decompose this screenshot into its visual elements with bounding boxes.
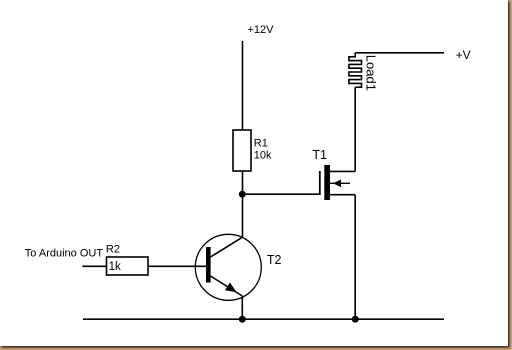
transistor T2 base bar xyxy=(206,247,211,283)
svg-text:T1: T1 xyxy=(312,148,327,162)
transistor T2 emitter line xyxy=(211,276,243,296)
mosfet T1 gate line xyxy=(319,171,321,195)
resistor R2 body xyxy=(107,257,149,275)
mosfet T1 body arrow head xyxy=(333,180,341,188)
wire gate horizontal xyxy=(242,193,320,195)
wire +12V supply vertical xyxy=(242,41,244,130)
svg-text:+12V: +12V xyxy=(248,24,275,36)
wire base left segment xyxy=(82,265,106,267)
mosfet T1 channel bar xyxy=(324,165,330,200)
svg-text:10k: 10k xyxy=(254,150,272,162)
svg-text:T2: T2 xyxy=(267,253,282,267)
wire mosfet drain horizontal xyxy=(330,170,355,172)
wire +V horizontal xyxy=(355,52,444,54)
wire base right segment xyxy=(148,265,206,267)
transistor T2 circle xyxy=(195,234,261,300)
node junction dot mosfet source/ground xyxy=(352,316,359,323)
svg-text:R2: R2 xyxy=(106,244,120,256)
svg-text:+V: +V xyxy=(456,48,471,62)
svg-text:R1: R1 xyxy=(254,138,268,150)
svg-text:Load1: Load1 xyxy=(363,55,378,91)
svg-text:To Arduino OUT: To Arduino OUT xyxy=(25,248,104,260)
inductor Load1 coil xyxy=(349,53,362,88)
node junction dot emitter/ground xyxy=(239,316,246,323)
wire mosfet source horizontal xyxy=(330,194,355,196)
wire drain vertical to load xyxy=(354,87,356,171)
wire ground rail bottom xyxy=(83,318,444,320)
node junction dot gate/R1 xyxy=(239,191,246,198)
resistor R1 body xyxy=(233,130,251,171)
mosfet T1 body arrow line xyxy=(330,182,350,184)
wire R1 bottom to collector node xyxy=(242,171,244,237)
wire emitter vertical xyxy=(241,296,243,319)
transistor T2 emitter arrow xyxy=(225,283,237,293)
transistor T2 collector line xyxy=(211,237,243,257)
wire mosfet source vertical xyxy=(354,195,356,320)
svg-text:1k: 1k xyxy=(109,261,121,273)
